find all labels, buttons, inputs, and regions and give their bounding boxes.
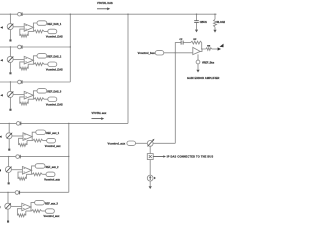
voltage source VREF_Bus [197,54,199,60]
op-amp [22,203,31,211]
wire [44,63,48,65]
aux right rail [68,123,70,192]
ground (RLOAD) [213,30,216,33]
svg-text:Vcontrol_aux: Vcontrol_aux [107,142,125,146]
resistor (series) [34,98,44,101]
op-amp [23,133,32,141]
op-amp U2 (gain error amplifier) [193,47,200,54]
svg-text:GAIN ERROR AMPLIFIER: GAIN ERROR AMPLIFIER [187,77,220,80]
wire [13,94,24,96]
current source [5,203,11,209]
wire [9,82,11,91]
junction [9,123,10,124]
node circle on cell top line [18,12,22,16]
wire [164,52,193,54]
wire bus-to-aux [127,14,129,123]
svg-text:CBUS: CBUS [200,21,207,24]
wire from amplifier [174,53,176,144]
node circle on cell top line [16,122,20,126]
wire [9,14,11,23]
wire [42,210,46,212]
ground (VREF) [197,64,199,70]
node circle on cell top line [18,45,22,49]
wire [44,30,48,32]
arrow VTOTAL DAS [97,8,108,10]
svg-text:VTOTAL DAS: VTOTAL DAS [97,2,113,5]
svg-text:REF_aux_2: REF_aux_2 [46,166,60,169]
ground (CBUS) [195,30,198,33]
cell line 3 (DAS) [0,81,70,83]
resistor RF [191,41,202,44]
wire [33,23,37,27]
wire [44,98,48,100]
current source [5,167,11,173]
wire [32,95,34,99]
wire [11,169,22,171]
block sensor [147,154,153,160]
svg-text:Vcontrol_DAS: Vcontrol_DAS [46,103,63,106]
wire [7,209,9,220]
wire [7,193,9,204]
svg-text:REF_DAS_3: REF_DAS_3 [47,91,61,94]
input arrow (left edge) [0,26,3,28]
control block Vcontrol_aux [46,172,55,177]
wire [9,30,11,40]
control block Vcontrol_DAS [48,97,57,102]
wire [11,205,22,207]
node circle on cell top line [16,155,20,159]
current source [7,24,13,30]
wire [201,43,203,49]
resistor RS [206,48,212,51]
svg-text:VREF_Bus: VREF_Bus [202,62,215,65]
wire [32,27,34,31]
wire [32,60,34,64]
reference block REF_aux_3 [35,200,45,205]
junction [10,81,11,82]
input arrow (left edge) [0,169,1,171]
node circle on cell top line [18,80,22,84]
wire [33,56,37,60]
op-amp [24,56,33,64]
wire [32,166,36,170]
wire [31,170,33,174]
svg-text:REF_DAS_1: REF_DAS_1 [47,23,61,26]
feedback resistor [19,138,23,145]
arrow + label IP DAS CONNECTED TO THE BUS [153,156,163,158]
op-amp [24,24,33,32]
junction [10,46,11,47]
terminal square [8,182,10,184]
wire output [200,49,206,51]
wire [149,160,151,176]
wire [9,97,11,108]
svg-text:Vcontrol_aux: Vcontrol_aux [45,145,61,148]
wire [30,207,32,211]
wire [8,173,10,183]
svg-text:IP DAS CONNECTED TO THE BUS: IP DAS CONNECTED TO THE BUS [167,156,214,159]
svg-text:REF_DAS_2: REF_DAS_2 [47,56,61,59]
resistor (series) [34,30,44,33]
svg-text:REF_aux_1: REF_aux_1 [46,132,60,135]
wire [149,146,151,153]
resistor (series) [33,139,43,142]
junction [8,156,9,157]
resistor (series) [32,173,42,176]
wire [31,203,35,207]
capacitor CF [180,41,182,45]
feedback wire [175,43,181,53]
multiplier M1 [147,141,153,147]
wire + arrow to bus [212,48,218,50]
terminal square [7,221,9,223]
DAS right rail [69,14,71,82]
junction [7,192,8,193]
control block Vcontrol_DAS [48,62,57,67]
wire [9,62,11,72]
op-amp [24,91,33,99]
feedback resistor [20,29,24,36]
wire [8,123,10,132]
reference block REF_DAS_1 [37,21,47,26]
control block Vcontrol_DAS [48,29,57,34]
svg-text:Vcontrol_aux: Vcontrol_aux [44,215,60,218]
svg-text:RF: RF [193,39,197,41]
wire [8,157,10,167]
control block Vcontrol_aux [45,209,54,214]
current source [7,56,13,62]
wire [13,59,24,61]
capacitor CBUS [196,14,198,20]
reference block REF_DAS_2 [37,54,47,59]
cell line 3 (aux) [0,191,69,193]
reference block REF_DAS_3 [37,89,47,94]
reference block REF_aux_2 [35,164,45,169]
feedback resistor [20,97,24,104]
feedback resistor [20,62,24,69]
svg-text:Vcontrol_bus: Vcontrol_bus [138,51,156,55]
svg-text:VTOTAL aux: VTOTAL aux [92,112,107,115]
svg-text:Vcontrol_DAS: Vcontrol_DAS [46,68,63,71]
terminal square [9,39,11,41]
resistor (series) [34,63,44,66]
cell line 2 (DAS) [0,46,70,48]
feedback resistor [18,172,22,179]
svg-text:CF: CF [179,39,183,41]
junction [10,14,11,15]
ground (bus source) [149,181,151,186]
feedback resistor [17,209,21,216]
control block Vcontrol_aux [47,138,56,143]
block Vcontrol_bus [155,51,164,55]
current source (bus) [147,175,153,181]
wire [31,137,33,141]
wire [13,26,24,28]
current source [6,133,12,139]
node circle on cell top line [15,191,19,195]
current source [7,91,13,97]
resistor RLOAD [214,14,216,19]
svg-text:RLOAD: RLOAD [217,21,225,24]
block Vcontrol_aux [127,141,136,145]
input arrow (left edge) [0,136,2,138]
wire [136,142,148,144]
arrow VTOTAL aux [92,118,102,120]
wire [8,139,10,149]
wire [12,135,23,137]
wire [42,173,46,175]
resistor (series) [32,210,42,213]
bus wire VTOTAL aux [0,122,128,124]
input arrow (left edge) [0,206,1,208]
wire [43,140,47,142]
svg-text:0: 0 [154,177,156,180]
wire [183,42,190,44]
input arrow (left edge) [0,94,3,96]
reference block REF_aux_1 [36,130,46,135]
wire [32,132,36,136]
svg-text:REF_aux_3: REF_aux_3 [45,203,59,206]
wire [153,142,175,144]
terminal square [8,149,10,151]
input arrow (left edge) [0,59,3,61]
bus wire VTOTAL DAS [0,13,217,15]
terminal square [9,72,11,74]
terminal square [9,109,11,111]
svg-text:Vcontrol_aux: Vcontrol_aux [44,179,60,182]
op-amp [22,167,31,175]
svg-text:RS: RS [207,45,211,47]
cell line 2 (aux) [0,155,69,157]
svg-text:Vcontrol_DAS: Vcontrol_DAS [46,36,63,39]
wire [9,47,11,56]
wire [33,91,37,95]
